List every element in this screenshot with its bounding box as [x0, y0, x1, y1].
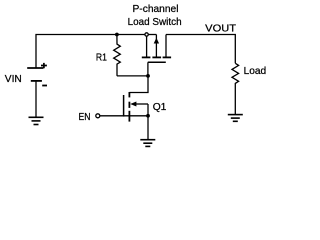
transistor P-FET drain terminal — [165, 35, 167, 57]
wire top rail VIN to P-FET source — [36, 35, 145, 69]
battery VIN plus plate — [27, 67, 43, 69]
wire P-FET gate down to node — [147, 62, 149, 76]
battery VIN minus plate — [31, 80, 42, 82]
svg-text:Load Switch: Load Switch — [128, 17, 182, 28]
wire Q1 source to ground — [147, 116, 149, 140]
svg-text:Load: Load — [244, 66, 267, 77]
ground battery — [29, 117, 44, 124]
svg-text:P-channel: P-channel — [133, 4, 179, 15]
wire Q1 source to node — [129, 115, 148, 117]
node junction dot gate/R1/Q1 drain — [146, 74, 150, 78]
transistor P-FET body terminal with arrow up — [155, 35, 157, 57]
resistor R1 — [114, 35, 121, 76]
wire EN to Q1 gate — [100, 115, 129, 117]
transistor Q1 gate bar — [123, 95, 125, 117]
wire node down to Q1 drain — [129, 76, 148, 93]
transistor P-channel load switch: source terminal — [146, 36, 148, 56]
svg-text:VIN: VIN — [5, 74, 22, 85]
svg-text:EN: EN — [79, 112, 91, 123]
ground Load — [228, 115, 243, 122]
svg-text:VOUT: VOUT — [205, 23, 236, 34]
transistor P-FET channel dashes — [142, 56, 171, 58]
node open circle P-FET source — [145, 33, 148, 36]
svg-text:Q1: Q1 — [153, 102, 167, 113]
node EN open circle — [96, 114, 100, 118]
wire VOUT rail — [166, 35, 235, 64]
battery minus sign — [42, 85, 47, 87]
ground Q1 — [140, 140, 155, 147]
node junction dot rail/R1 — [115, 33, 119, 37]
transistor Q1 channel dashes — [128, 92, 130, 122]
wire rail stub circle to body terminal — [149, 34, 157, 36]
node junction dot Q1 source/body — [146, 114, 150, 118]
resistor Load — [232, 63, 239, 114]
battery plus sign — [41, 63, 47, 68]
transistor P-FET gate bar — [148, 61, 166, 63]
wire battery to ground — [35, 81, 37, 117]
svg-text:R1: R1 — [96, 53, 107, 64]
wire R1 bottom to gate node — [117, 75, 148, 77]
transistor Q1 body arrow pointing left — [135, 103, 148, 105]
